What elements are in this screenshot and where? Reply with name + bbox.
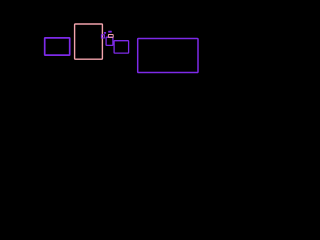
block B (pink rectangle) [75,24,103,59]
block F (small pink rectangle) [108,35,113,38]
block A (left purple rectangle) [45,38,70,55]
dash E (wide purple tick) [108,31,112,33]
dash D (small purple tick) [104,32,106,34]
block I (large purple rectangle) [138,39,198,73]
node C (small purple square on pink edge) [101,35,104,38]
block G (small purple rectangle) [106,37,113,45]
block H (medium purple rectangle) [114,41,129,53]
